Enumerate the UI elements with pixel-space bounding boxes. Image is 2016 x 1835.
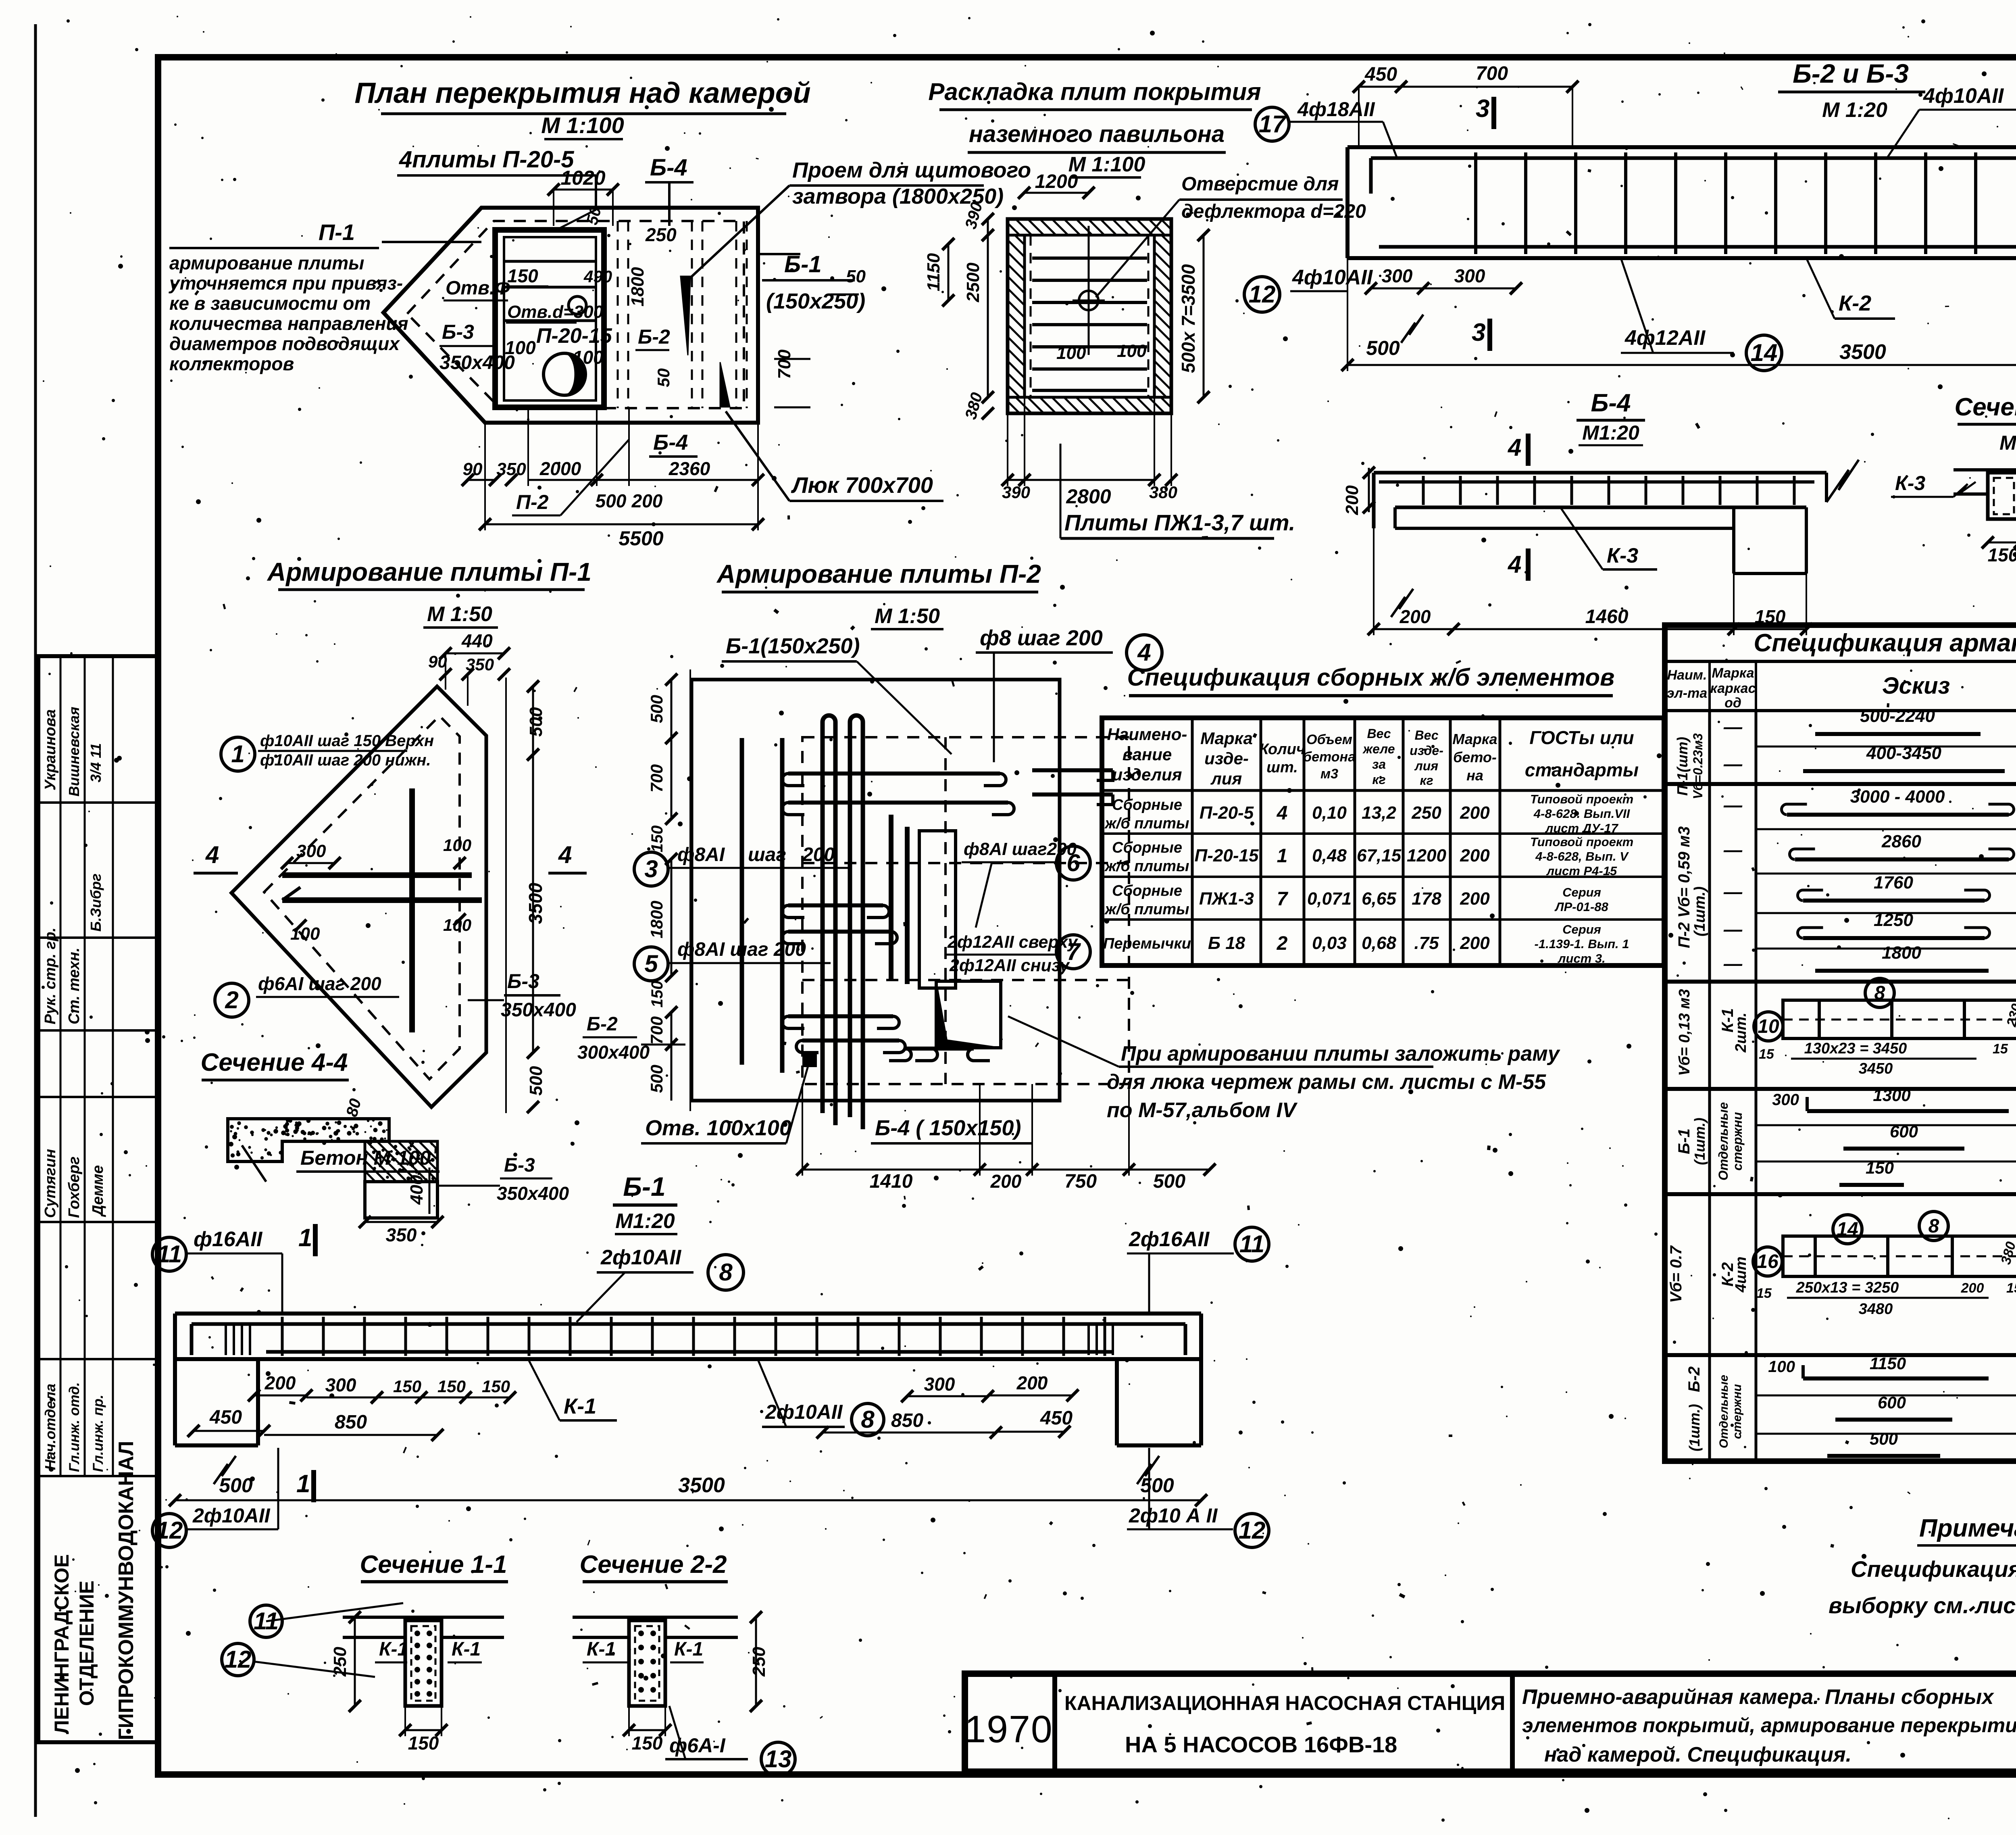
beam B2/B3 top rebar [1371,156,2016,160]
svg-text:200: 200 [990,1171,1022,1192]
svg-text:ПЖ1-3: ПЖ1-3 [1199,889,1254,909]
svg-text:3000 - 4000: 3000 - 4000 [1850,787,1945,807]
svg-text:М 1:50: М 1:50 [427,603,492,626]
svg-text:М 1:20: М 1:20 [1822,98,1887,122]
P-2 bottom dims [802,1169,980,1171]
svg-text:100: 100 [290,924,320,944]
svg-text:1: 1 [1277,845,1288,867]
svg-text:0,071: 0,071 [1307,889,1352,909]
150 dim below section 4-4 [1988,542,2016,544]
svg-text:440: 440 [461,630,493,651]
black wedge openings [681,276,690,355]
svg-text:Объем: Объем [1306,732,1352,747]
svg-text:5500: 5500 [619,527,663,550]
svg-text:100: 100 [573,347,604,368]
svg-text:шаг: шаг [748,844,786,865]
250 dim right [755,1617,757,1706]
svg-text:П-20-15: П-20-15 [1195,846,1259,865]
title block [965,1674,2016,1772]
svg-text:диаметров подводящих: диаметров подводящих [169,333,400,354]
svg-text:М 1:100: М 1:100 [541,113,624,138]
svg-text:4: 4 [1508,551,1521,578]
svg-text:90: 90 [428,652,447,671]
svg-text:ОТДЕЛЕНИЕ: ОТДЕЛЕНИЕ [75,1581,98,1706]
svg-text:Раскладка плит покрытия: Раскладка плит покрытия [928,78,1261,105]
svg-text:1300: 1300 [1873,1086,1910,1105]
svg-text:2ф10АII: 2ф10АII [192,1504,271,1527]
svg-text:Б-3: Б-3 [504,1155,535,1176]
svg-text:50: 50 [846,267,866,286]
svg-text:1800: 1800 [628,267,648,307]
svg-text:4ф18АII: 4ф18АII [1297,98,1375,121]
svg-text:Спецификация сборных ж/б элеме: Спецификация сборных ж/б элементов [1127,664,1615,691]
svg-text:700: 700 [1476,63,1508,84]
svg-text:м3: м3 [1320,766,1338,782]
eskiz K-2 sketch rows 14-16 [1783,1236,2016,1276]
circles 11,12 [250,1605,282,1637]
circle 11 + f16AII left [152,1237,186,1271]
svg-text:3450: 3450 [1859,1060,1893,1077]
svg-text:Б-1: Б-1 [1675,1128,1693,1154]
svg-text:250: 250 [749,1647,769,1677]
svg-text:150: 150 [393,1377,421,1396]
svg-text:ж/б плиты: ж/б плиты [1104,815,1189,832]
svg-text:Сборные: Сборные [1112,839,1182,856]
svg-text:3: 3 [644,855,658,882]
svg-text:Демме: Демме [90,1165,106,1217]
svg-text:П-20-5: П-20-5 [1200,803,1254,823]
svg-text:500: 500 [1366,337,1400,359]
svg-text:0,03: 0,03 [1312,933,1347,953]
svg-text:130х23 = 3450: 130х23 = 3450 [1804,1040,1907,1057]
svg-text:100: 100 [1117,341,1147,361]
svg-text:Эскиз: Эскиз [1882,673,1950,699]
svg-text:2800: 2800 [1066,485,1111,508]
svg-text:50: 50 [654,368,673,387]
svg-text:4ф12АII: 4ф12АII [1624,326,1706,350]
svg-text:К-1: К-1 [587,1639,616,1660]
svg-text:Сечение 2-2: Сечение 2-2 [580,1551,727,1579]
svg-text:11: 11 [1239,1230,1264,1257]
svg-text:500: 500 [1140,1474,1174,1497]
svg-text:2ф12АII снизу: 2ф12АII снизу [949,956,1070,975]
svg-text:К-1: К-1 [452,1639,481,1660]
svg-text:Вес: Вес [1367,726,1391,741]
svg-text:1: 1 [231,740,244,767]
svg-text:Vб= 0.7: Vб= 0.7 [1667,1245,1685,1303]
svg-text:3480: 3480 [1859,1301,1893,1318]
svg-text:500-2240: 500-2240 [1860,706,1935,726]
svg-text:Армирование плиты П-1: Армирование плиты П-1 [267,557,591,586]
350 dim below [365,1221,437,1223]
svg-text:ЛЕНИНГРАДСКОЕ: ЛЕНИНГРАДСКОЕ [50,1554,73,1734]
svg-text:700: 700 [647,764,666,792]
svg-text:200: 200 [802,844,835,865]
svg-text:Марка: Марка [1712,665,1754,681]
svg-text:500: 500 [596,490,627,511]
svg-text:Гл.инж. отд.: Гл.инж. отд. [67,1382,82,1472]
svg-text:0,10: 0,10 [1312,803,1347,823]
svg-text:850: 850 [891,1410,923,1431]
svg-text:Марка: Марка [1452,731,1497,747]
svg-text:1150: 1150 [1870,1354,1906,1373]
svg-text:лия: лия [1414,759,1438,773]
svg-text:16: 16 [1757,1251,1779,1272]
beam B-1 body [175,1312,1201,1316]
svg-text:200: 200 [631,490,663,511]
deflector circle [1079,291,1098,310]
svg-text:12: 12 [156,1517,183,1544]
P-2 central thick bars [889,815,893,980]
P-2 horizontal bars with hooks [788,772,1000,776]
svg-text:П-2 Vб= 0,59 м3: П-2 Vб= 0,59 м3 [1675,826,1693,948]
svg-text:кг: кг [1420,773,1433,788]
hole d300 circle [569,296,586,314]
svg-text:желе: желе [1362,742,1395,756]
P-2 left dim column [689,669,691,1111]
svg-text:490: 490 [583,267,612,286]
svg-text:Vб=0.23м3: Vб=0.23м3 [1691,733,1705,799]
svg-text:(1шт.): (1шт.) [1691,886,1708,936]
P-2 circle 5 callout [634,947,668,981]
svg-text:500: 500 [647,695,666,723]
raskladka right dim 500x7=3500 [1203,235,1205,397]
svg-text:150: 150 [648,981,666,1008]
svg-text:П-1(шт): П-1(шт) [1674,737,1691,796]
svg-text:15: 15 [1756,1286,1772,1301]
svg-text:1: 1 [296,1470,310,1498]
svg-text:стержни: стержни [1730,1112,1745,1170]
svg-text:Серия: Серия [1562,885,1601,899]
svg-text:Ст. техн.: Ст. техн. [66,948,83,1024]
svg-text:П-20-15: П-20-15 [536,324,612,348]
svg-text:150: 150 [482,1377,510,1396]
svg-text:200: 200 [1400,606,1431,627]
svg-text:Типовой проект: Типовой проект [1530,792,1633,806]
svg-text:(1шт.): (1шт.) [1691,1118,1708,1165]
dense stirrups at ends [225,1324,227,1355]
svg-text:Сборные: Сборные [1112,882,1182,899]
svg-text:300: 300 [924,1374,955,1395]
svg-text:200: 200 [1460,933,1490,953]
svg-text:Рук. стр. гр.: Рук. стр. гр. [42,928,59,1024]
svg-text:стержни: стержни [1731,1384,1744,1439]
P-2 mid horizontal hooked bars [788,903,883,907]
svg-text:1150: 1150 [924,253,943,291]
svg-text:350х400: 350х400 [439,352,515,373]
svg-text:500х 7=3500: 500х 7=3500 [1178,264,1199,373]
svg-text:Отв. 100х100: Отв. 100х100 [645,1116,791,1140]
svg-text:за: за [1372,757,1386,772]
svg-text:Сечение 4-4: Сечение 4-4 [201,1049,348,1076]
svg-text:К-1: К-1 [379,1639,408,1660]
P-2 vertical hairpin bars [823,715,835,1125]
P-1 callout 2 [215,983,249,1017]
svg-text:ф10АII шаг 200 нижн.: ф10АII шаг 200 нижн. [260,751,431,769]
svg-text:4-8-628. Вып.VII: 4-8-628. Вып.VII [1533,807,1631,821]
svg-text:Наим.: Наим. [1667,667,1707,683]
svg-text:67,15: 67,15 [1357,846,1402,865]
P-1 rebar cross [282,872,472,878]
svg-text:Типовой проект: Типовой проект [1530,835,1633,849]
svg-text:4-8-628, Вып. V: 4-8-628, Вып. V [1535,849,1629,863]
svg-text:для люка чертеж рамы см. листы: для люка чертеж рамы см. листы с М-55 [1107,1070,1546,1094]
svg-text:200: 200 [1016,1372,1048,1393]
plan outline pentagon [383,208,758,423]
pavilion slab layout square [1008,219,1171,413]
svg-text:эл-та: эл-та [1667,686,1707,701]
svg-text:2: 2 [225,986,238,1013]
svg-text:6,65: 6,65 [1362,889,1396,909]
beam B2/B3 left dims 450/700 [1359,86,1401,88]
beam overall dim 3500 [1347,364,2016,366]
svg-text:П-1: П-1 [319,219,355,245]
big rebar spec table [1665,625,2016,1461]
svg-text:лист Р4-15: лист Р4-15 [1546,864,1617,878]
raskladka bottom dims [1008,479,1025,481]
150 dim below [405,1729,442,1731]
section 4-4 drawing [1954,468,2016,471]
svg-text:—: — [1723,716,1743,737]
svg-text:лист 3.: лист 3. [1557,951,1606,965]
svg-text:Б-4: Б-4 [1591,389,1631,417]
svg-text:При армировании плиты заложить: При армировании плиты заложить раму [1121,1042,1561,1066]
svg-text:М1:20: М1:20 [615,1209,675,1233]
svg-text:300х400: 300х400 [577,1042,650,1063]
svg-text:1410: 1410 [870,1171,913,1192]
svg-text:Б-4: Б-4 [650,154,687,181]
svg-text:150: 150 [648,826,666,853]
svg-text:6: 6 [1066,849,1080,876]
svg-text:План перекрытия над камерой: План перекрытия над камерой [354,77,810,109]
svg-text:2000: 2000 [539,458,581,479]
svg-text:изделия: изделия [1112,765,1182,784]
svg-text:Б 18: Б 18 [1208,933,1245,953]
svg-text:НА 5 НАСОСОВ 16ФВ-18: НА 5 НАСОСОВ 16ФВ-18 [1125,1732,1397,1757]
svg-text:.75: .75 [1414,933,1439,953]
svg-text:3: 3 [1472,319,1485,346]
svg-text:Б-2 и Б-3: Б-2 и Б-3 [1793,58,1909,88]
svg-text:наземного павильона: наземного павильона [969,121,1225,147]
svg-text:Колич: Колич [1259,741,1305,758]
svg-text:450: 450 [1040,1408,1073,1429]
svg-text:2: 2 [1277,933,1288,954]
P-2 circle 3 callout [634,852,668,886]
svg-text:400-3450: 400-3450 [1866,743,1941,763]
svg-text:2шт.: 2шт. [1733,1013,1749,1053]
svg-text:количества направления: количества направления [169,313,408,334]
svg-text:250: 250 [645,224,677,245]
plan left rectangle wing [383,266,428,361]
svg-text:элементов покрытий, армировани: элементов покрытий, армирование перекрыт… [1522,1714,2016,1737]
svg-text:500: 500 [526,1066,546,1096]
svg-text:7: 7 [1277,888,1289,910]
svg-text:13,2: 13,2 [1362,803,1396,823]
manhole circle [544,353,585,395]
svg-text:кг: кг [1372,772,1385,787]
svg-text:К-2: К-2 [1839,291,1871,315]
small spec table grid [1102,718,1664,965]
svg-text:армирование плиты: армирование плиты [169,252,364,273]
svg-text:350: 350 [386,1224,417,1245]
svg-text:13: 13 [765,1745,792,1772]
svg-text:Б-3: Б-3 [507,970,539,993]
svg-text:Б-2: Б-2 [587,1013,618,1035]
svg-text:Б-2: Б-2 [638,325,670,348]
P-1 callout 1 [221,737,255,771]
svg-text:К-1: К-1 [674,1639,703,1660]
svg-text:450: 450 [1364,64,1397,85]
svg-text:500: 500 [219,1474,253,1497]
table body vertical lines [1708,711,1711,1461]
svg-text:2ф10 А II: 2ф10 А II [1129,1504,1218,1527]
section 1-1 drawing [343,1616,504,1619]
svg-text:ф6А-I: ф6А-I [669,1734,726,1757]
svg-text:бетона: бетона [1303,749,1356,765]
svg-text:Отверстие для: Отверстие для [1181,173,1339,195]
raskladka left dims [987,219,989,235]
P-2 outer square [691,680,1060,1101]
svg-text:150: 150 [408,1733,439,1754]
svg-text:Отдельные: Отдельные [1717,1375,1731,1448]
svg-text:15: 15 [1759,1047,1774,1062]
svg-text:1200: 1200 [1035,171,1078,192]
svg-text:дефлектора d=220: дефлектора d=220 [1181,201,1366,222]
svg-text:Вес: Вес [1414,728,1438,742]
dashed joints [1030,235,1032,397]
svg-text:8: 8 [719,1259,733,1286]
svg-text:15: 15 [2006,1280,2016,1296]
svg-text:350х400: 350х400 [497,1183,569,1204]
svg-text:3500: 3500 [1839,340,1886,364]
svg-text:Гохберг: Гохберг [66,1157,83,1218]
150 dim below [629,1729,665,1731]
svg-text:Наимено-: Наимено- [1107,725,1187,744]
svg-text:10: 10 [1758,1016,1779,1037]
svg-text:200: 200 [1460,846,1490,865]
svg-text:150: 150 [1866,1158,1894,1177]
svg-text:4плиты П-20-5: 4плиты П-20-5 [399,146,574,173]
svg-text:178: 178 [1412,889,1441,909]
leader lines from 4plity [556,210,596,230]
svg-text:Бетон М-100: Бетон М-100 [300,1147,431,1169]
svg-text:лист ДУ-17: лист ДУ-17 [1545,821,1619,835]
beam B2/B3 body [1347,145,2016,149]
section 2-2 drawing [573,1616,738,1619]
svg-text:Сборные: Сборные [1112,797,1182,813]
plan dimension 1020 top [554,189,613,191]
svg-text:бето-: бето- [1453,749,1497,765]
svg-text:П-2: П-2 [516,491,549,513]
svg-text:500: 500 [1870,1429,1898,1448]
svg-text:1: 1 [298,1224,312,1252]
P-1 right dim column [505,678,507,1113]
beam B2/B3 bottom rebar [1379,245,2016,249]
svg-text:0,68: 0,68 [1362,933,1396,953]
svg-text:Нач.отдела: Нач.отдела [42,1384,58,1470]
svg-text:Сечение 4-4: Сечение 4-4 [1955,393,2016,421]
svg-text:Отдельные: Отдельные [1716,1102,1731,1180]
svg-text:8: 8 [861,1406,875,1433]
svg-text:2360: 2360 [669,458,710,479]
svg-text:17: 17 [1259,111,1287,138]
svg-text:4ф10АII: 4ф10АII [1923,84,2004,108]
250 dim left [354,1617,356,1706]
svg-text:над камерой. Спецификация.: над камерой. Спецификация. [1544,1743,1851,1766]
slab internal lines [504,260,596,263]
beam B2/B3 stirrups [1474,152,1477,254]
svg-text:4: 4 [205,841,219,868]
outer sheet edge line [34,24,37,1817]
svg-text:500: 500 [647,1065,666,1093]
svg-text:ке в зависимости от: ке в зависимости от [169,293,371,314]
svg-text:выборку см. лист АС-37: выборку см. лист АС-37 [1829,1593,2016,1618]
svg-text:700: 700 [647,1016,666,1045]
svg-text:Б-4: Б-4 [653,430,688,455]
svg-text:750: 750 [1064,1171,1097,1192]
svg-text:15: 15 [1993,1041,2008,1057]
svg-text:2860: 2860 [1881,832,1921,851]
beam B-1 top/bottom rebar [192,1322,1185,1326]
dashed beam strips in plan [617,221,619,408]
svg-text:Плиты ПЖ1-3,7 шт.: Плиты ПЖ1-3,7 шт. [1064,510,1295,535]
concrete slab with speckles [228,1119,389,1161]
svg-text:1200: 1200 [1407,846,1446,865]
svg-text:ж/б плиты: ж/б плиты [1104,858,1189,875]
svg-text:150: 150 [1988,544,2016,565]
svg-text:изде-: изде- [1204,749,1249,768]
svg-text:—: — [1723,794,1743,815]
svg-text:Вишневская: Вишневская [66,707,82,797]
svg-text:380: 380 [1149,483,1177,502]
svg-text:14: 14 [1751,339,1778,366]
beam B-4 body [1374,471,1826,475]
slab P-20-15 thick rectangle [495,230,604,407]
svg-text:11: 11 [157,1241,182,1268]
svg-text:300: 300 [1382,265,1413,286]
svg-text:1970: 1970 [964,1708,1053,1751]
svg-text:Украинова: Украинова [42,709,59,790]
svg-text:12: 12 [1239,1517,1266,1544]
svg-text:Люк 700х700: Люк 700х700 [791,472,933,498]
svg-text:М1:20: М1:20 [1999,432,2016,454]
svg-text:Проем для щитового: Проем для щитового [792,158,1031,182]
svg-text:Отв.d=300: Отв.d=300 [507,302,604,322]
svg-text:уточняется при привяз-: уточняется при привяз- [169,273,403,294]
svg-text:500: 500 [526,707,546,737]
svg-text:14: 14 [1837,1219,1858,1240]
svg-text:вание: вание [1123,745,1172,764]
svg-text:М 1:100: М 1:100 [1068,153,1145,176]
svg-text:Б-1: Б-1 [623,1172,665,1201]
svg-text:Б-2: Б-2 [1685,1366,1703,1392]
svg-text:1250: 1250 [1874,910,1913,930]
svg-text:450: 450 [209,1407,242,1428]
svg-text:—: — [1723,753,1743,774]
svg-text:4: 4 [1277,803,1288,824]
svg-text:М1:20: М1:20 [1582,421,1639,444]
svg-text:Б-4 ( 150х150): Б-4 ( 150х150) [875,1116,1021,1140]
P-2 lower horizontal bars [788,1014,893,1018]
svg-text:4: 4 [558,841,572,868]
P-1 diamond outline [231,686,486,1107]
svg-text:М 1:50: М 1:50 [875,605,940,628]
svg-text:—: — [1723,953,1743,974]
svg-text:(1шт.): (1шт.) [1686,1404,1703,1451]
svg-text:250х13 = 3250: 250х13 = 3250 [1796,1279,1899,1296]
svg-text:0,48: 0,48 [1312,846,1347,865]
svg-text:1760: 1760 [1874,873,1913,892]
